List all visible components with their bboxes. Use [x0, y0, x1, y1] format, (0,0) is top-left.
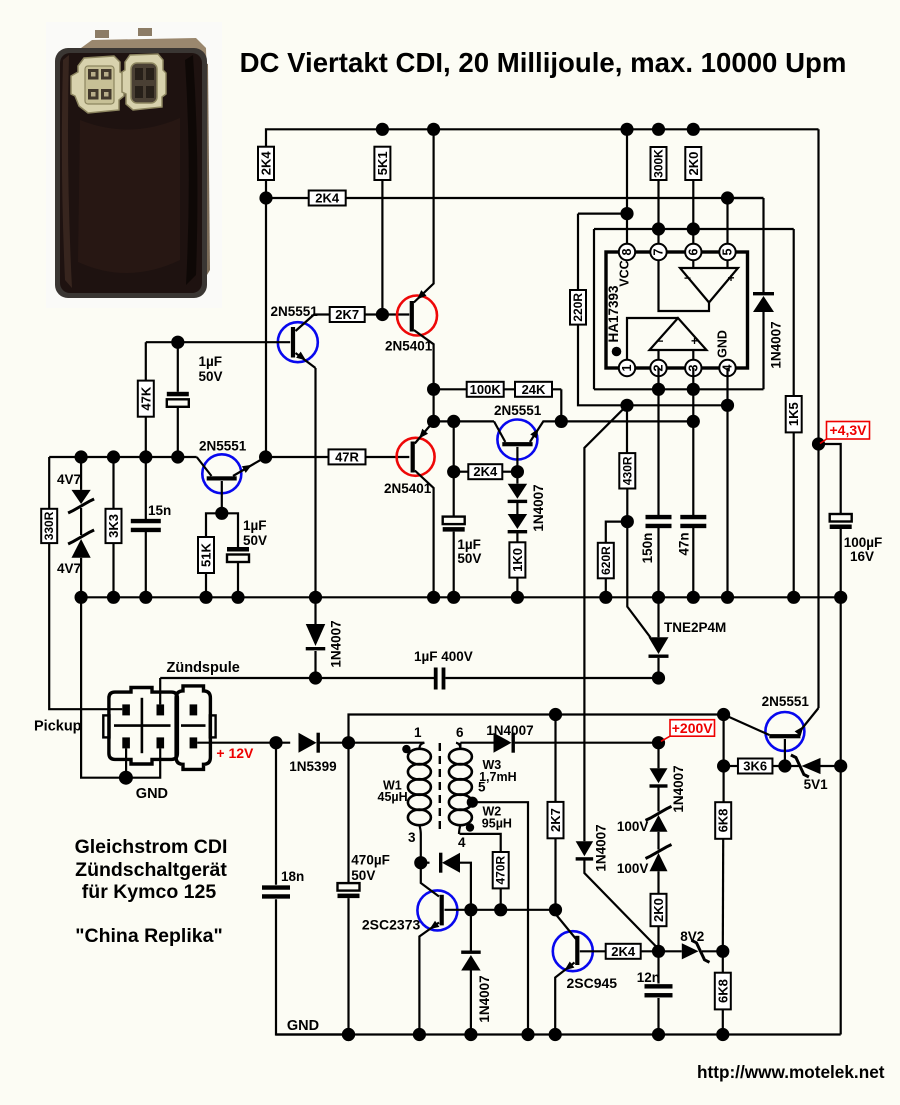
node 2K4 column dot — [447, 415, 460, 428]
transistor Q5 2N5401 (driver) — [397, 438, 435, 476]
wire Q4 base row — [434, 420, 494, 422]
capacitor 12n — [657, 951, 659, 983]
Q4 base diagonal — [494, 421, 505, 442]
label +200V red — [661, 720, 715, 742]
wire pin3/W1 bottom to base node — [420, 834, 422, 863]
svg-text:47K: 47K — [138, 386, 153, 410]
wire x453.7 column — [453, 421, 455, 471]
wire 3K6 row — [724, 765, 739, 767]
node +200V dot — [652, 736, 665, 749]
wire diagonal to 8V2 node — [584, 860, 658, 949]
svg-text:GND: GND — [287, 1018, 319, 1034]
svg-text:2N5401: 2N5401 — [384, 481, 432, 496]
svg-text:620R: 620R — [599, 546, 613, 575]
pin 4 — [719, 360, 735, 376]
node 6K8 lower top dot — [716, 945, 729, 958]
svg-text:1N4007: 1N4007 — [594, 824, 609, 871]
connector cross lines — [114, 724, 171, 727]
svg-text:150n: 150n — [640, 533, 655, 564]
resistor 2K7 (top) — [330, 307, 365, 322]
svg-text:+ 12V: + 12V — [216, 745, 254, 761]
wire +12V from connector — [197, 742, 290, 744]
svg-text:für Kymco 125: für Kymco 125 — [82, 881, 217, 903]
diode 1N4007 (beside IC) — [753, 292, 774, 295]
zener 100V (lower) — [657, 832, 659, 850]
svg-text:+200V: +200V — [672, 720, 714, 736]
node Q4 collector dot — [511, 465, 524, 478]
capacitor 18n — [275, 743, 277, 885]
Q2 collector diagonal with arrow — [233, 457, 266, 476]
transistor Q7 2SC2373 — [417, 890, 457, 930]
svg-text:http://www.motelek.net: http://www.motelek.net — [697, 1062, 885, 1082]
svg-text:16V: 16V — [850, 549, 874, 564]
svg-text:5V1: 5V1 — [804, 777, 829, 792]
node 470uF top dot — [342, 736, 355, 749]
resistor 2K4 (Q8 collector) — [606, 944, 641, 959]
node 2SC945 base dot — [549, 903, 562, 916]
node 2K7 top dot — [549, 708, 562, 721]
Q1 collector diagonal to 2K7 — [296, 315, 331, 332]
wire 47K top — [145, 342, 147, 380]
diode 1N5399 — [299, 733, 317, 753]
pin 5 — [719, 244, 735, 260]
Q5 collector diagonal down — [415, 471, 434, 598]
mid rail junction dots — [75, 591, 88, 604]
capacitor 15n — [145, 457, 147, 522]
comparator B input/output wires — [657, 350, 659, 360]
svg-text:Zündspule: Zündspule — [167, 660, 240, 676]
svg-text:+: + — [691, 334, 698, 348]
wire pin4 column — [726, 368, 728, 597]
diode 1N4007 (snubber) — [470, 910, 472, 952]
bottom ground rail — [276, 1033, 841, 1035]
diode 1N4007 (pickup shaper) — [314, 597, 316, 624]
svg-text:2K4: 2K4 — [315, 191, 340, 206]
svg-text:1µF: 1µF — [243, 518, 267, 533]
resistor 620R — [606, 522, 628, 543]
wire clamp diode elbow down — [460, 863, 471, 910]
svg-text:220R: 220R — [571, 293, 585, 322]
node second rail junction — [259, 191, 272, 204]
svg-text:470µF: 470µF — [351, 853, 390, 868]
svg-text:300K: 300K — [652, 149, 666, 178]
svg-text:2K0: 2K0 — [686, 152, 701, 176]
wire right column to bottom rail — [840, 766, 842, 1035]
wire pin8 column from top rail — [626, 129, 628, 244]
svg-text:8: 8 — [620, 248, 634, 255]
diode (base clamp, pointing left) — [421, 862, 430, 864]
node pin2 dot — [652, 383, 665, 396]
svg-text:1N4007: 1N4007 — [329, 620, 344, 667]
svg-text:1N4007: 1N4007 — [769, 321, 784, 368]
node clamp column dot — [464, 903, 477, 916]
connector right tab — [210, 715, 216, 737]
svg-text:6K8: 6K8 — [715, 979, 730, 1003]
svg-text:5K1: 5K1 — [375, 151, 390, 175]
wire 47K bottom — [145, 417, 147, 457]
wire 24K elbow down — [560, 389, 562, 421]
node Q4 emitter junction — [555, 415, 568, 428]
wire top supply rail — [266, 129, 819, 146]
comparator B (lower) triangle — [650, 318, 707, 350]
wire right edge column (+4.3V line) — [817, 129, 819, 708]
comparator A input/output wires — [692, 260, 694, 268]
svg-text:HA17393: HA17393 — [606, 285, 621, 343]
svg-text:47R: 47R — [335, 449, 359, 464]
Q4 emitter diagonal — [530, 421, 561, 442]
wire 18n to bottom rail — [276, 899, 349, 1034]
svg-text:100µF: 100µF — [844, 535, 883, 550]
zener 5V1 — [785, 765, 800, 767]
node pin6 wire dot — [687, 222, 700, 235]
resistor 300K — [651, 147, 667, 180]
svg-text:6: 6 — [686, 248, 700, 255]
wire 2K0 to pin 6 — [692, 180, 694, 244]
node 2K4 row left dot — [447, 465, 460, 478]
CDI module photo — [46, 22, 222, 308]
svg-text:4: 4 — [458, 835, 466, 850]
svg-text:1µF: 1µF — [457, 537, 481, 552]
svg-text:2N5551: 2N5551 — [494, 403, 542, 418]
wire long diagonal comparator to 1N4007 column — [584, 405, 627, 841]
Q6 base diagonal — [724, 715, 770, 736]
svg-text:2K4: 2K4 — [473, 464, 498, 479]
svg-text:24K: 24K — [522, 382, 546, 397]
transformer secondary W3/W2 — [456, 743, 460, 749]
svg-text:7: 7 — [652, 248, 666, 255]
svg-text:2SC2373: 2SC2373 — [362, 917, 421, 933]
svg-text:1: 1 — [620, 364, 634, 371]
node Q5 emitter top dot — [427, 415, 440, 428]
resistor 2K4 (top left vertical) — [258, 147, 274, 180]
svg-text:4V7: 4V7 — [57, 561, 81, 576]
svg-text:2K0: 2K0 — [651, 898, 666, 922]
wire oscillator top rail — [349, 715, 724, 743]
wire Zuendspule pin up — [159, 678, 161, 704]
resistor 3K3 — [112, 457, 114, 509]
op-amp U1 HA17393 body — [606, 252, 748, 368]
capacitor 47n — [680, 515, 706, 528]
svg-text:Zündschaltgerät: Zündschaltgerät — [75, 859, 227, 881]
svg-text:GND: GND — [136, 786, 168, 802]
svg-text:2K4: 2K4 — [259, 151, 274, 176]
wire second rail — [266, 197, 764, 199]
svg-text:Gleichstrom CDI: Gleichstrom CDI — [75, 836, 228, 858]
node thyristor cathode dot — [652, 671, 665, 684]
svg-text:8V2: 8V2 — [680, 929, 704, 944]
svg-text:1K0: 1K0 — [510, 548, 525, 572]
Q7 collector wire — [445, 909, 556, 911]
node 3K3 dot — [107, 450, 120, 463]
wire +4.3V to 100uF — [819, 444, 841, 514]
node 220R-pin8 dot — [620, 207, 633, 220]
wire 100uF to mid rail and down to 5V1 row — [840, 529, 842, 766]
Q8 base diagonal — [556, 910, 577, 939]
transistor Q3 2N5401 (top middle) — [397, 296, 437, 336]
connector B on photo — [122, 54, 166, 110]
node Q2 collector dot — [259, 450, 272, 463]
node 1uF top dot — [171, 336, 184, 349]
svg-text:95µH: 95µH — [482, 817, 512, 831]
transistor Q1 2N5551 (top left) — [278, 322, 318, 362]
diode 1N4007 (HV) — [650, 768, 668, 783]
wire 220R bottom to comparator output node — [578, 325, 728, 406]
resistor 2K7 (feedback) — [554, 715, 556, 802]
resistor 430R — [626, 405, 628, 453]
node pin7 wire dot — [652, 222, 665, 235]
resistor 100K — [467, 382, 504, 397]
node pin5 top dot — [721, 191, 734, 204]
wire GND pins — [125, 748, 127, 777]
svg-text:"China Replika": "China Replika" — [75, 925, 222, 947]
node 8V2 row dot — [652, 945, 665, 958]
wire Q6 base node — [717, 708, 730, 721]
node 5K1/base dot — [376, 308, 389, 321]
svg-text:2N5401: 2N5401 — [385, 339, 433, 354]
mid ground rail — [81, 596, 841, 598]
wire 100K/24K row — [434, 388, 562, 390]
connector pins — [122, 704, 130, 715]
resistor 2K0 (top) — [685, 147, 701, 180]
svg-text:50V: 50V — [351, 868, 375, 883]
wire pins7/6 feedback loop — [594, 228, 794, 230]
resistor 5K1 — [374, 147, 390, 180]
svg-text:1µF: 1µF — [199, 354, 223, 369]
wire x660 column +200V down — [657, 743, 659, 769]
svg-text:−: − — [657, 334, 664, 348]
svg-text:430R: 430R — [620, 456, 634, 485]
W2 polarity dot — [466, 823, 474, 831]
svg-text:50V: 50V — [457, 551, 481, 566]
svg-text:2K7: 2K7 — [548, 808, 563, 832]
svg-text:6K8: 6K8 — [716, 809, 731, 833]
capacitor 1uF 50V (Q1 base) — [177, 342, 179, 392]
svg-text:4V7: 4V7 — [57, 472, 81, 487]
wire emitter row to pin3 column — [561, 420, 693, 422]
capacitor 1uF 50V (Q2) — [227, 547, 249, 562]
wire to 1uF (Q2) — [222, 513, 238, 547]
svg-text:12n: 12n — [637, 970, 660, 985]
Q5 emitter diagonal from junction — [415, 421, 434, 443]
comparator A (upper) triangle — [680, 268, 738, 303]
svg-text:1,7mH: 1,7mH — [479, 770, 517, 784]
resistor 2K4 (horizontal) — [309, 191, 346, 206]
resistor 51K — [198, 537, 214, 573]
W1 polarity dot — [402, 745, 410, 753]
svg-text:15n: 15n — [148, 503, 171, 518]
wire to 51K — [206, 513, 222, 537]
junction dots top rail — [376, 123, 389, 136]
svg-text:2K7: 2K7 — [335, 307, 359, 322]
wire x266 column down from 2K4 — [265, 198, 267, 457]
resistor 1K0 — [516, 533, 518, 542]
Q1 emitter diagonal — [296, 353, 316, 368]
node pin1/pin4 output junction — [620, 399, 633, 412]
resistor 6K8 (lower) — [715, 973, 731, 1010]
wire 2K4 to second rail — [265, 180, 267, 198]
svg-text:DC Viertakt CDI, 20 Millijoule: DC Viertakt CDI, 20 Millijoule, max. 100… — [240, 47, 847, 78]
resistor 470R — [493, 852, 509, 888]
wire pin5 column — [726, 198, 728, 244]
wire Q1 emitter down to mid rail — [314, 368, 316, 597]
svg-text:1N4007: 1N4007 — [671, 765, 686, 812]
wire 1N5399 to transformer — [320, 742, 425, 744]
zener 100V (upper) — [657, 787, 659, 811]
transformer T1 primary W1 — [419, 743, 424, 749]
svg-text:18n: 18n — [281, 869, 304, 884]
svg-text:3K6: 3K6 — [743, 759, 767, 774]
Q4 collector from bar — [516, 447, 518, 472]
svg-text:1K5: 1K5 — [786, 402, 801, 426]
transistor Q6 2N5551 (output clamp) — [765, 712, 804, 751]
svg-text:100V: 100V — [617, 861, 649, 876]
resistor 220R — [570, 290, 586, 325]
Q6 collector diagonal to right column — [798, 708, 819, 734]
wire pin2 column with 150n — [657, 368, 659, 518]
bottom rail dots — [342, 1028, 355, 1041]
resistor 2K0 (HV) — [657, 871, 659, 894]
node 620R junction — [621, 515, 634, 528]
svg-text:2N5551: 2N5551 — [762, 694, 810, 709]
capacitor 150n — [646, 515, 672, 528]
svg-text:470R: 470R — [494, 856, 508, 885]
diode 1N4007 (pair lower) — [516, 503, 518, 515]
thyristor TNE2P4M — [657, 597, 659, 637]
pin 7 — [650, 244, 666, 260]
svg-text:1N5399: 1N5399 — [289, 759, 336, 774]
wire diode column right of IC — [762, 312, 764, 389]
capacitor 470uF 50V — [347, 743, 349, 883]
wire tap5 to bottom rail — [472, 802, 528, 1034]
svg-text:1N4007: 1N4007 — [477, 975, 492, 1022]
resistor 2K4 (Q4 base) — [454, 471, 469, 473]
svg-text:2SC945: 2SC945 — [567, 975, 618, 991]
pin 2 — [650, 360, 666, 376]
resistor 24K — [515, 382, 552, 397]
node Q2 emitter junction — [215, 507, 228, 520]
pin 1 — [619, 360, 635, 376]
diode 1N4007 (x584 column) — [576, 841, 594, 856]
pin 6 — [685, 244, 701, 260]
node 1N4007 left dot — [309, 671, 322, 684]
node 47K/15n dot — [139, 450, 152, 463]
wire 5K1 down to 2N5401 base node — [381, 180, 383, 315]
Q3 emitter from top rail — [414, 129, 434, 302]
tap 5 node — [467, 797, 478, 808]
svg-text:1N4007: 1N4007 — [531, 484, 546, 531]
wire 330R to pickup — [49, 543, 122, 709]
wire 330R top elbow — [48, 457, 50, 509]
pin 8 — [619, 244, 635, 260]
node 470R bottom dot — [494, 903, 507, 916]
node 100K row dot — [427, 383, 440, 396]
svg-text:1: 1 — [414, 725, 422, 740]
Q8 emitter diagonal — [555, 963, 574, 1035]
svg-text:1N4007: 1N4007 — [486, 723, 533, 738]
Q2 base diagonal — [197, 457, 212, 476]
capacitor 100uF 16V — [830, 514, 852, 529]
Q2 emitter down — [221, 481, 223, 513]
wire 1K5 to mid rail — [793, 432, 795, 597]
svg-text:100K: 100K — [470, 382, 502, 397]
wire Zuendspule net — [160, 677, 434, 679]
svg-text:GND: GND — [716, 330, 730, 358]
wire rectifier to +200V node — [515, 742, 659, 744]
wire 47R row — [266, 456, 410, 458]
node GND dot — [119, 771, 133, 785]
Q3 collector diagonal down — [414, 330, 434, 421]
node +4.3V junction — [812, 437, 825, 450]
node pin3 row dot — [687, 415, 700, 428]
node 470uF bottom dot — [342, 1028, 355, 1041]
svg-text:100V: 100V — [617, 819, 649, 834]
resistor 47K — [138, 381, 154, 417]
svg-text:3K3: 3K3 — [106, 514, 121, 538]
node pin3 dot — [687, 383, 700, 396]
svg-text:45µH: 45µH — [378, 790, 408, 804]
diode 1N4007 (pin 6 rectifier) — [459, 743, 461, 749]
svg-text:47n: 47n — [677, 532, 692, 555]
diode 1N4007 (pair upper) — [516, 472, 518, 484]
zener diode 4V7 (lower) — [80, 508, 82, 535]
zener diode 4V7 (upper) — [80, 457, 82, 490]
node 1uF bottom dot — [171, 450, 184, 463]
node 5V1 right dot — [834, 759, 847, 772]
capacitor 1uF 50V (Q4) — [453, 472, 455, 517]
connector A on photo — [71, 56, 124, 113]
resistor 1K5 — [786, 396, 802, 432]
svg-text:330R: 330R — [42, 511, 56, 540]
wire pin4 to 470R — [460, 834, 501, 852]
svg-text:51K: 51K — [199, 542, 214, 566]
node Q6 emitter dot — [778, 759, 791, 772]
resistor 6K8 (upper) — [722, 766, 724, 802]
node 3K6 row dot — [717, 759, 730, 772]
node 2SC2373 base dot — [414, 856, 427, 869]
transistor Q8 2SC945 — [553, 931, 593, 971]
svg-text:TNE2P4M: TNE2P4M — [664, 620, 726, 635]
wire 2K7 to Q3 base — [365, 313, 410, 315]
svg-text:+4,3V: +4,3V — [830, 422, 868, 438]
transistor Q4 2N5551 (comparator drive) — [497, 420, 537, 460]
svg-text:1µF 400V: 1µF 400V — [414, 649, 473, 664]
svg-text:2N5551: 2N5551 — [199, 439, 247, 454]
svg-text:50V: 50V — [199, 369, 223, 384]
node pin4 wire junction — [721, 399, 734, 412]
svg-text:+: + — [728, 271, 735, 285]
svg-text:VCC: VCC — [618, 260, 632, 286]
resistor 3K6 — [738, 759, 773, 774]
wire 1K5 column — [793, 229, 795, 396]
capacitor 1uF 400V — [434, 668, 438, 690]
IC index dot — [612, 347, 622, 357]
connector body right — [176, 686, 210, 770]
resistor 47R — [329, 449, 366, 464]
pin 3 — [685, 360, 701, 376]
wire Q1 base — [146, 341, 290, 343]
wire below IC (pins 2,3 to diode) — [594, 388, 764, 390]
transformer core — [439, 743, 441, 834]
Q8 collector wire — [580, 950, 606, 952]
wire base row y457 — [49, 456, 197, 458]
Q6 emitter down — [784, 739, 786, 766]
node +12V dot — [269, 736, 282, 749]
node zener column dot — [75, 450, 88, 463]
wire pin3 column with 47n — [692, 368, 694, 518]
connector left tab — [103, 715, 109, 737]
zener 8V2 — [659, 950, 682, 952]
svg-text:5: 5 — [721, 248, 735, 255]
